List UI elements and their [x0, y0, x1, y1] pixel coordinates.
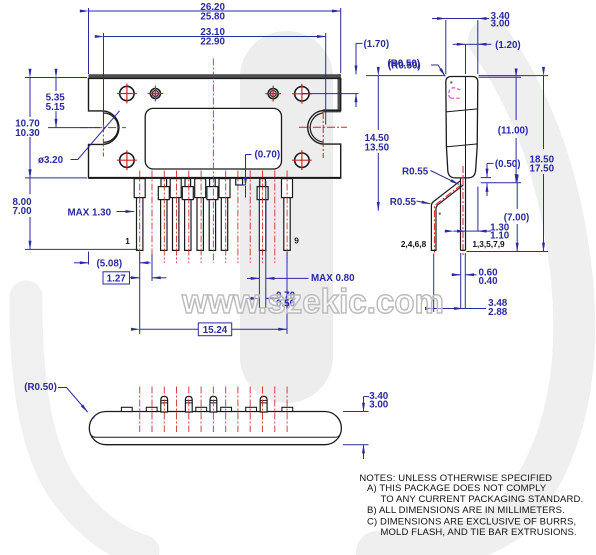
small hole right: [265, 86, 281, 102]
hidden recess magenta dashed: [448, 88, 462, 98]
front pin 3: [170, 179, 181, 251]
bottom view red centre lines: [140, 387, 287, 433]
front pin 8: [257, 179, 268, 251]
dim 1.30/1.10: [477, 187, 479, 232]
straight lead 1,3,5,7,9: [461, 179, 466, 251]
dim 1.27: [103, 272, 130, 284]
svg-text:3.00: 3.00: [369, 400, 389, 411]
svg-text:TO ANY CURRENT PACKAGING STAND: TO ANY CURRENT PACKAGING STANDARD.: [381, 494, 584, 505]
svg-text:R0.55: R0.55: [402, 166, 429, 177]
bottom view dims: [58, 388, 369, 460]
leader (R0.50) to side body corner: [431, 65, 445, 76]
dim 8.00/7.00 bottom ext line: [25, 248, 138, 250]
bottom view pin 6 upright: [210, 396, 217, 412]
side body mold line upper: [446, 109, 478, 112]
svg-text:2,4,6,8: 2,4,6,8: [401, 239, 427, 249]
front tie-bar stub: [236, 179, 243, 185]
bar seating line: [92, 436, 340, 438]
svg-text:9: 9: [294, 236, 299, 246]
bent lead 2,4,6,8: [431, 181, 463, 251]
bottom view lead stub: [282, 407, 293, 411]
front pin 6: [207, 179, 218, 251]
svg-text:(R0.50): (R0.50): [24, 382, 57, 393]
dim (11.00): [479, 76, 522, 78]
front pin 2: [158, 179, 169, 251]
svg-text:(0.50): (0.50): [495, 159, 521, 170]
notch centre ext line: [48, 127, 100, 129]
svg-text:25.80: 25.80: [200, 12, 225, 23]
svg-text:(1.70): (1.70): [364, 39, 390, 50]
svg-text:0.40: 0.40: [478, 276, 498, 287]
svg-text:1: 1: [125, 236, 130, 246]
svg-text:15.24: 15.24: [203, 325, 228, 336]
bent lead red centre line: [434, 185, 461, 253]
svg-text:7.00: 7.00: [12, 206, 32, 217]
svg-text:2.88: 2.88: [488, 307, 508, 318]
dim (1.20): [453, 43, 466, 45]
svg-text:1.27: 1.27: [107, 273, 127, 284]
bottom view lead stub: [196, 407, 207, 411]
svg-text:MOLD FLASH, AND TIE BAR EXTRUS: MOLD FLASH, AND TIE BAR EXTRUSIONS.: [381, 527, 577, 538]
svg-text:B) ALL DIMENSIONS ARE IN MILLI: B) ALL DIMENSIONS ARE IN MILLIMETERS.: [367, 505, 565, 516]
bottom view pin 8 upright: [260, 396, 267, 412]
side body parting line vertical: [465, 77, 467, 179]
dim 14.50/13.50: [366, 75, 445, 77]
front package right notch step thick grey: [323, 109, 341, 112]
dim 26.20/25.80 ext lines: [88, 8, 90, 74]
mount hole bottom-left: [117, 150, 137, 170]
bottom view lead stub: [246, 407, 257, 411]
mount hole top-left: [117, 84, 137, 104]
dim 3.40/3.00 top: [445, 20, 447, 74]
front pin 1: [134, 179, 145, 251]
leader of (0.70): [246, 154, 252, 156]
dim 15.24: [140, 328, 199, 330]
leader R0.55 lower: [417, 201, 431, 204]
bottom view lead stub: [121, 407, 132, 411]
front package right edge upper thick grey: [338, 74, 341, 112]
dim 3.48/2.88: [433, 254, 435, 313]
small hole left: [148, 86, 164, 102]
svg-text:17.50: 17.50: [530, 164, 555, 175]
bottom view bar: [89, 412, 341, 445]
svg-text:10.30: 10.30: [15, 128, 40, 139]
bottom view lead stub: [221, 407, 232, 411]
mount hole bottom-right: [292, 150, 312, 170]
svg-text:(1.20): (1.20): [495, 40, 521, 51]
dim 23.10/22.90 ext lines: [103, 33, 105, 125]
asterisk mark top: [450, 81, 452, 83]
svg-text:C) DIMENSIONS ARE EXCLUSIVE OF: C) DIMENSIONS ARE EXCLUSIVE OF BURRS,: [367, 516, 576, 527]
dim 8.00/7.00 line: [29, 178, 31, 194]
MAX 1.30 leader: [117, 211, 135, 213]
svg-text:MAX 1.30: MAX 1.30: [68, 208, 112, 219]
leader of dia 3.20: [71, 111, 120, 160]
dim 18.50/17.50: [479, 75, 549, 77]
right notch inner arc: [310, 113, 323, 142]
bottom view lead stub: [146, 407, 157, 411]
watermark right arc: [377, 40, 574, 552]
svg-text:NOTES: UNLESS OTHERWISE SPECIF: NOTES: UNLESS OTHERWISE SPECIFIED: [359, 473, 552, 484]
mount hole top-right: [292, 84, 312, 104]
dim 5.35/5.15 line: [55, 78, 57, 92]
dim MAX 0.80: [247, 277, 259, 279]
svg-text:1.10: 1.10: [490, 230, 510, 241]
bottom view pin 2 upright: [161, 396, 168, 412]
dim (5.08): [74, 262, 89, 264]
pin1 ext line down: [139, 252, 141, 334]
svg-text:ø3.20: ø3.20: [38, 155, 64, 166]
left notch inner arc: [103, 113, 118, 142]
dim (1.70): [356, 42, 363, 44]
svg-text:A) THIS PACKAGE DOES NOT COMPL: A) THIS PACKAGE DOES NOT COMPLY: [367, 483, 547, 494]
front package top edge thick grey: [89, 74, 341, 78]
side red centre line: [462, 166, 464, 256]
dim 10.70/10.30 ext lines: [25, 77, 87, 79]
svg-text:(0.70): (0.70): [255, 149, 281, 160]
left notch red crosshair: [80, 111, 126, 157]
front pin 7: [219, 179, 230, 251]
svg-text:(5.08): (5.08): [97, 258, 123, 269]
dim 26.20/25.80 line: [89, 10, 341, 12]
right notch red crosshair: [299, 111, 347, 158]
svg-text:13.50: 13.50: [365, 142, 390, 153]
front package outline: [89, 78, 341, 177]
leader R0.55 upper: [431, 171, 459, 185]
side body outline: [446, 77, 478, 178]
watermark middle stadium: [240, 31, 333, 403]
central window: [145, 108, 281, 169]
front package bottom edge heavier: [89, 177, 341, 179]
svg-text:www.szekic.com: www.szekic.com: [181, 283, 444, 321]
svg-text:(11.00): (11.00): [498, 125, 529, 136]
dim (0.50): [487, 162, 494, 164]
dim 0.60/0.40: [460, 253, 462, 308]
bottom view pin 4 upright: [185, 396, 192, 412]
red pin centre lines: [140, 59, 287, 264]
pin8 leg ext lines: [258, 181, 260, 308]
front pin 5: [195, 179, 206, 251]
dim 10.70/10.30 line: [29, 78, 31, 118]
asterisk mark bend: [439, 213, 441, 215]
svg-text:(R0.50): (R0.50): [387, 59, 420, 70]
dim (7.00): [516, 183, 518, 209]
side body mold line lower: [446, 144, 478, 147]
svg-text:R0.55: R0.55: [390, 197, 417, 208]
front pin 9: [282, 179, 293, 251]
watermark left arc: [26, 297, 143, 551]
dim 23.10/22.90 line: [104, 36, 326, 38]
svg-text:22.90: 22.90: [200, 36, 225, 47]
front pin 4: [182, 179, 193, 251]
svg-text:5.15: 5.15: [46, 102, 66, 113]
dim 0.70/0.50 arrows: [247, 297, 259, 299]
svg-text:3.00: 3.00: [491, 19, 511, 30]
